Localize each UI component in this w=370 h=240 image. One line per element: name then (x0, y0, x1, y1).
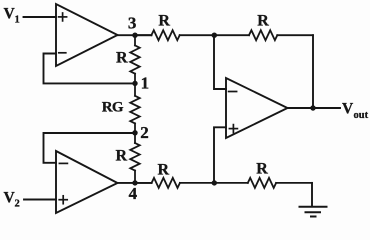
resistor R3 (node 3 to U3 inverting node) (135, 30, 214, 40)
svg-text:V: V (342, 101, 354, 118)
wire to ground (311, 183, 313, 207)
node 1 (132, 81, 137, 86)
junction node (U3 noninverting) (212, 180, 217, 185)
wire junction to U3 inverting input (214, 35, 226, 89)
wire junction to U3 noninverting input (214, 127, 226, 183)
resistor R1 (node 3 to node 1) (130, 35, 139, 83)
resistor RG (node 1 to node 2) (130, 83, 139, 132)
wire U2 output to node 4 (118, 182, 152, 184)
wire V1 to U1 noninverting input (24, 16, 57, 18)
svg-text:out: out (354, 110, 369, 121)
node 2 (132, 130, 137, 135)
wire U3 output to Vout (288, 107, 341, 109)
resistor R6 (junction to ground) (214, 178, 312, 188)
node 4 (132, 180, 137, 185)
op-amp U1 (56, 4, 118, 66)
op-amp U3 (226, 78, 288, 138)
resistor R2 (node 2 to node 4) (130, 133, 139, 183)
svg-text:R: R (116, 147, 128, 164)
svg-text:R: R (116, 49, 128, 66)
svg-text:R: R (158, 12, 170, 29)
svg-text:3: 3 (128, 13, 137, 32)
node Vout (310, 105, 315, 110)
wire U2 feedback from node 2 to U2 inverting input (44, 133, 136, 163)
resistor R4 (feedback, junction to Vout node) (214, 30, 313, 40)
svg-text:2: 2 (140, 123, 149, 142)
label V1 (4, 6, 20, 26)
wire U1 output to node 3 (118, 34, 152, 36)
svg-text:R: R (257, 12, 269, 29)
wire U1 feedback from node 1 to U1 inverting input (44, 54, 136, 84)
svg-text:RG: RG (102, 99, 124, 115)
resistor R5 (node 4 to U3 noninverting node) (135, 178, 214, 188)
label V2 (4, 190, 20, 210)
wire V2 to U2 noninverting input (24, 199, 56, 201)
op-amp U2 (56, 151, 118, 213)
svg-text:R: R (256, 161, 268, 178)
wire feedback down to output node (312, 35, 314, 108)
svg-text:1: 1 (141, 73, 150, 92)
ground (300, 207, 327, 217)
svg-text:4: 4 (129, 184, 138, 203)
label Vout (342, 101, 369, 122)
junction node (U3 inverting) (212, 33, 217, 38)
node 3 (132, 33, 137, 38)
svg-text:R: R (158, 161, 170, 178)
svg-text:2: 2 (15, 199, 20, 210)
svg-text:1: 1 (15, 15, 20, 26)
